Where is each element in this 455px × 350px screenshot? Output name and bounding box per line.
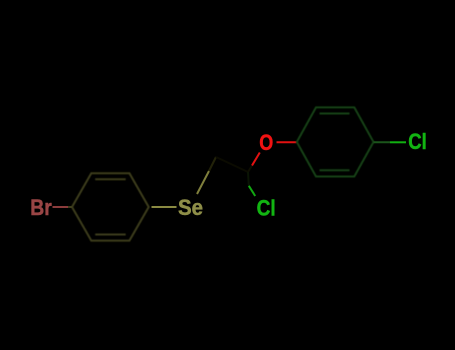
CH-O bond [248,166,252,173]
svg-text:Cl: Cl [408,129,427,154]
Se-CH2 bond [197,171,209,194]
right benzene ring [297,107,374,176]
CH-Cl bond [247,172,250,186]
Br bond [53,206,69,208]
svg-text:Cl: Cl [257,196,276,221]
svg-text:O: O [259,130,273,155]
left benzene ring [72,173,149,240]
CH2-CH bond [216,157,248,172]
ring-Se bond [152,206,177,208]
ring-Cl bond [374,141,391,143]
svg-text:Se: Se [178,195,203,220]
O-ring bond [277,141,297,143]
svg-text:Br: Br [30,195,52,220]
